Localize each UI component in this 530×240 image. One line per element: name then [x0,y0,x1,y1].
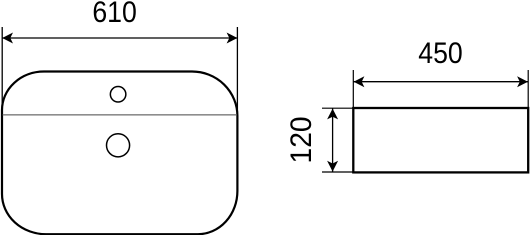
arrowhead 450 left [354,76,365,87]
extension line 610 right [236,27,238,117]
extension line 450 right [527,70,529,107]
basin top view outline [2,72,237,235]
extension line 120 top [322,107,353,109]
svg-text:450: 450 [418,37,463,70]
extension line 610 left [1,27,3,111]
basin side view rectangle [353,108,528,172]
dimension line 610 [2,37,237,39]
extension line 120 bottom [322,171,353,173]
drain hole [107,134,130,157]
extension line 450 left [352,70,354,107]
dimension line 450 [353,81,528,83]
arrowhead 610 left [2,33,13,44]
svg-text:610: 610 [92,0,137,29]
arrowhead 610 right [227,33,238,44]
svg-text:120: 120 [285,116,318,163]
arrowhead 450 right [517,76,528,87]
basin overflow split line [3,114,237,116]
arrowhead 120 top [327,109,338,120]
arrowhead 120 bottom [327,161,338,172]
faucet hole [110,87,126,103]
dimension line 120 [332,108,334,172]
